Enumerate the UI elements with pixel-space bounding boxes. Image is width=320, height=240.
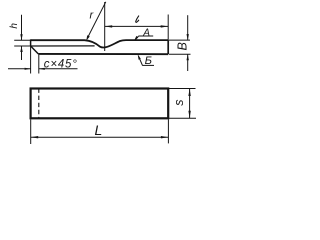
dimension l: arrows: [105, 25, 113, 27]
side view: bottom edge: [38, 53, 168, 55]
dimension s: arrows: [188, 89, 190, 97]
label A leader with shelf: [139, 35, 154, 37]
svg-text:s: s: [172, 99, 186, 105]
leader r: [88, 2, 106, 38]
side view: top edge with concave neck dip: [31, 40, 169, 47]
svg-text:L: L: [95, 122, 103, 138]
plan view: hidden chamfer dashed line: [38, 89, 40, 119]
dimension B(В): arrows: [187, 34, 189, 40]
svg-text:h: h: [9, 23, 20, 29]
dimension L: arrows: [31, 136, 39, 138]
side view: middle visible edge line: [31, 45, 95, 47]
dimension B(В): extension lines: [169, 15, 191, 71]
dimension l: extension and dimension lines: [105, 2, 169, 51]
side view: left end face: [30, 39, 32, 46]
side view: right end face: [167, 40, 169, 54]
dimension h: arrows: [20, 34, 22, 40]
svg-text:В: В: [176, 42, 190, 50]
dimension c x 45: arrows: [25, 68, 31, 70]
dimension c x 45: extension lines: [8, 46, 78, 74]
plan view rectangle: [31, 89, 169, 119]
label B(Б) leader with shelf: [142, 64, 154, 66]
label l (script ell): [136, 16, 139, 23]
dimension L: extension lines: [31, 120, 169, 145]
side view: chamfer line c x 45: [31, 46, 39, 54]
dimension h: extension lines: [14, 15, 30, 60]
svg-text:Б: Б: [145, 55, 152, 67]
svg-text:А: А: [142, 27, 150, 38]
dimension s: extension lines: [169, 89, 196, 119]
svg-text:c×45°: c×45°: [44, 59, 77, 71]
